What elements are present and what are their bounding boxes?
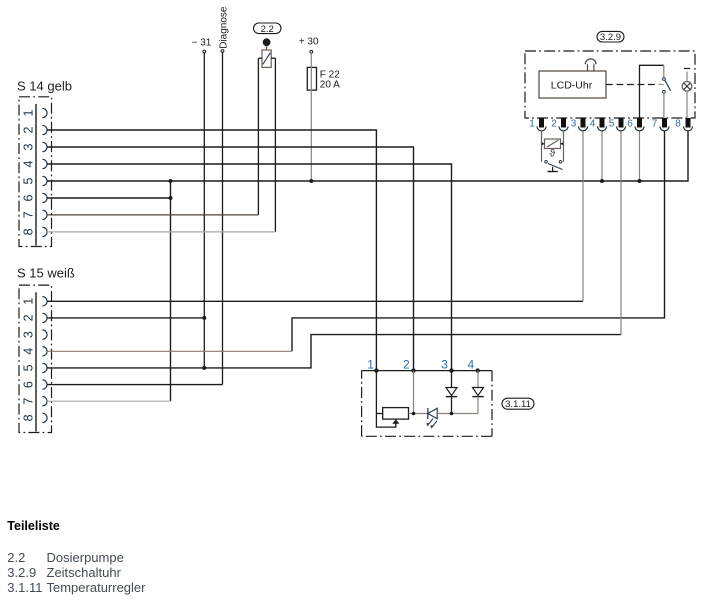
svg-text:Dosierpumpe: Dosierpumpe xyxy=(47,550,124,565)
svg-text:1: 1 xyxy=(21,109,35,116)
svg-text:4: 4 xyxy=(590,119,596,130)
svg-text:6: 6 xyxy=(21,381,35,388)
svg-text:6: 6 xyxy=(627,119,633,130)
svg-text:5: 5 xyxy=(21,364,35,371)
svg-text:3: 3 xyxy=(571,119,577,130)
svg-text:7: 7 xyxy=(652,119,658,130)
svg-text:5: 5 xyxy=(21,177,35,184)
svg-text:2.2: 2.2 xyxy=(261,24,274,35)
svg-text:6: 6 xyxy=(21,194,35,201)
svg-text:3.1.11: 3.1.11 xyxy=(7,580,42,595)
svg-text:2: 2 xyxy=(21,314,35,321)
svg-text:Teileliste: Teileliste xyxy=(7,519,60,533)
svg-text:− 31: − 31 xyxy=(192,38,212,49)
svg-text:2: 2 xyxy=(21,126,35,133)
svg-text:8: 8 xyxy=(21,414,35,421)
svg-text:4: 4 xyxy=(468,357,475,371)
svg-text:Zeitschaltuhr: Zeitschaltuhr xyxy=(47,565,122,580)
svg-text:20 A: 20 A xyxy=(320,79,340,90)
svg-text:3: 3 xyxy=(21,331,35,338)
svg-text:Diagnose: Diagnose xyxy=(218,6,229,49)
svg-text:4: 4 xyxy=(21,348,35,355)
svg-text:Temperaturregler: Temperaturregler xyxy=(47,580,147,595)
svg-text:ϑ: ϑ xyxy=(550,149,556,160)
svg-text:3: 3 xyxy=(441,357,448,371)
svg-text:1: 1 xyxy=(21,298,35,305)
svg-text:4: 4 xyxy=(21,160,35,167)
svg-text:3.2.9: 3.2.9 xyxy=(600,32,621,43)
svg-text:7: 7 xyxy=(21,211,35,218)
svg-text:2: 2 xyxy=(403,357,410,371)
svg-text:S 15 weiß: S 15 weiß xyxy=(17,266,75,281)
svg-text:7: 7 xyxy=(21,398,35,405)
svg-text:3.2.9: 3.2.9 xyxy=(7,565,36,580)
svg-text:3: 3 xyxy=(21,143,35,150)
svg-text:8: 8 xyxy=(21,228,35,235)
svg-text:2: 2 xyxy=(551,119,557,130)
svg-text:LCD-Uhr: LCD-Uhr xyxy=(551,80,593,92)
svg-text:8: 8 xyxy=(675,119,681,130)
svg-text:S 14 gelb: S 14 gelb xyxy=(17,79,72,94)
svg-text:5: 5 xyxy=(609,119,615,130)
svg-text:1: 1 xyxy=(367,357,374,371)
svg-text:3.1.11: 3.1.11 xyxy=(505,399,531,410)
svg-text:2.2: 2.2 xyxy=(7,550,25,565)
svg-text:+ 30: + 30 xyxy=(299,37,319,48)
svg-text:1: 1 xyxy=(529,119,535,130)
